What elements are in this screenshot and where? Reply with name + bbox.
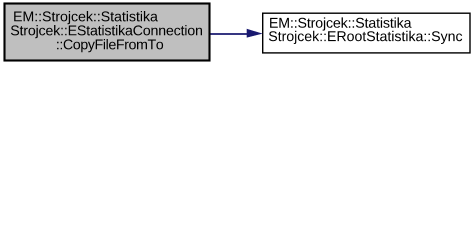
- label line 1: EM::Strojcek::Statistika: [14, 11, 158, 24]
- node box: EM::Strojcek::StatistikaStrojcek::ERootStatistika::Sync (callee, white): [263, 13, 470, 53]
- label line 2: Strojcek::ERootStatistika::Sync: [269, 31, 462, 44]
- edge arrow shaft: [211, 33, 249, 35]
- label line 3: ::CopyFileFromTo: [57, 39, 163, 52]
- label line 1: EM::Strojcek::Statistika: [270, 17, 411, 30]
- edge arrowhead: [247, 29, 262, 37]
- label line 2: Strojcek::EStatistikaConnection: [11, 25, 202, 38]
- node box: EM::Strojcek::StatistikaStrojcek::EStatistikaConnection::CopyFileFromTo (current, grey): [5, 4, 210, 61]
